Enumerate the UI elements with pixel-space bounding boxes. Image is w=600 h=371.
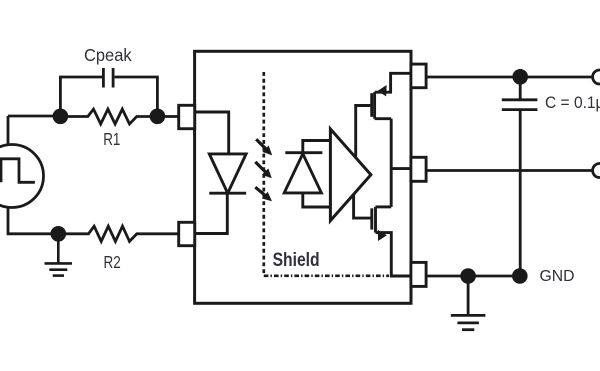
LED D1 [195, 112, 246, 234]
terminal VDD [593, 70, 600, 84]
node dot A2 [150, 109, 166, 125]
photodiode D2 [284, 141, 330, 208]
wire GND row [426, 275, 520, 278]
wire bus to VO pin [391, 167, 411, 170]
transistor Q2 (bottom MOSFET) [354, 194, 411, 276]
node dot A1 [53, 109, 69, 125]
capacitor Cpeak [60, 68, 157, 112]
wire VO row [426, 169, 593, 172]
svg-text:R1: R1 [103, 129, 120, 149]
resistor R2 [58, 226, 178, 241]
shield dashed line (vertical) [262, 72, 265, 276]
pin 2 (cathode, left bottom) [179, 222, 195, 245]
pin GND (right bottom) [411, 262, 426, 286]
pin VO (right middle) [411, 157, 426, 181]
wire source top to row A [7, 116, 10, 145]
ground (right) [451, 276, 486, 330]
node dot GND2 [512, 268, 528, 284]
node dot VDD/C [512, 69, 528, 85]
capacitor C [502, 77, 538, 276]
ground (left) [45, 234, 73, 276]
pulse source V1 [0, 145, 44, 208]
wire source bottom to row B [8, 207, 58, 234]
svg-text:GND: GND [540, 268, 575, 285]
pin VDD (right top) [411, 64, 426, 88]
node dot B1 [51, 226, 67, 242]
IC U1 body [195, 51, 411, 303]
op-amp U2 (output amplifier) [330, 129, 371, 221]
svg-text:C = 0.1µF: C = 0.1µF [545, 93, 600, 112]
light arrow 2 [255, 162, 271, 178]
shield dash-dot line (horizontal) [264, 274, 389, 277]
light arrow 3 [255, 187, 272, 201]
svg-text:Shield: Shield [273, 249, 320, 271]
resistor R1 [60, 109, 178, 124]
pin 1 (anode, left top) [179, 105, 195, 128]
terminal VO [593, 164, 600, 178]
wire VDD row [426, 76, 593, 79]
wire row A left [8, 115, 60, 118]
light arrow 1 [256, 139, 272, 155]
svg-text:Cpeak: Cpeak [84, 45, 132, 65]
wire output bus [390, 119, 393, 207]
node dot GND1 [460, 268, 476, 284]
transistor Q1 (top MOSFET) [356, 73, 411, 157]
svg-text:R2: R2 [104, 252, 121, 272]
